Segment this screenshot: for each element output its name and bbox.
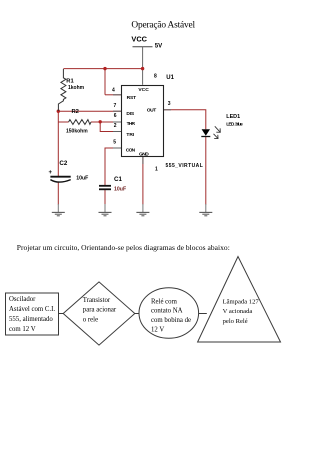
svg-text:Oscilador: Oscilador — [9, 296, 36, 303]
svg-text:3: 3 — [168, 101, 171, 107]
svg-text:CON: CON — [126, 147, 136, 153]
svg-text:555, alimentado: 555, alimentado — [9, 316, 53, 323]
svg-text:Astável com C.I.: Astável com C.I. — [9, 306, 55, 313]
svg-text:DIS: DIS — [126, 111, 135, 117]
svg-text:VCC: VCC — [138, 87, 149, 93]
svg-text:1kohm: 1kohm — [68, 85, 85, 91]
svg-text:Lâmpada 127: Lâmpada 127 — [223, 298, 260, 305]
svg-text:pelo Relé: pelo Relé — [223, 318, 248, 325]
svg-text:R1: R1 — [66, 78, 74, 84]
svg-text:com 12 V: com 12 V — [9, 326, 36, 333]
svg-text:THR: THR — [127, 121, 136, 127]
svg-text:R2: R2 — [72, 109, 79, 115]
svg-text:U1: U1 — [166, 75, 174, 81]
svg-text:LED1: LED1 — [226, 114, 240, 120]
svg-text:4: 4 — [112, 87, 115, 93]
svg-text:555_VIRTUAL: 555_VIRTUAL — [166, 163, 203, 169]
svg-text:RST: RST — [127, 95, 137, 101]
svg-text:OUT: OUT — [147, 107, 157, 113]
svg-text:150kohm: 150kohm — [66, 128, 88, 134]
svg-text:6: 6 — [114, 113, 117, 119]
svg-text:com bobina de: com bobina de — [151, 317, 191, 324]
svg-text:V acionada: V acionada — [223, 308, 253, 315]
svg-text:+: + — [49, 170, 53, 176]
svg-text:contato NA: contato NA — [151, 308, 183, 315]
svg-text:Projetar um circuito, Orientan: Projetar um circuito, Orientando-se pelo… — [17, 243, 230, 252]
svg-text:8: 8 — [154, 73, 157, 79]
svg-text:12 V: 12 V — [151, 327, 164, 334]
svg-text:C2: C2 — [59, 160, 67, 167]
svg-text:Relé com: Relé com — [151, 298, 178, 305]
svg-text:Operação Astável: Operação Astável — [131, 20, 195, 30]
svg-text:GND: GND — [139, 152, 149, 158]
svg-text:o rele: o rele — [83, 317, 98, 324]
svg-text:Transistor: Transistor — [83, 297, 111, 304]
svg-text:5V: 5V — [155, 43, 163, 50]
svg-text:1: 1 — [155, 167, 158, 173]
svg-text:10uF: 10uF — [76, 176, 88, 182]
svg-text:2: 2 — [114, 123, 117, 129]
svg-text:5: 5 — [113, 139, 116, 145]
svg-text:7: 7 — [114, 103, 117, 109]
svg-text:para acionar: para acionar — [83, 307, 117, 314]
svg-text:C1: C1 — [114, 176, 122, 183]
svg-text:10uF: 10uF — [114, 186, 126, 192]
svg-text:VCC: VCC — [131, 34, 147, 43]
svg-text:LED_blue: LED_blue — [226, 121, 243, 127]
svg-text:TRI: TRI — [126, 132, 134, 138]
